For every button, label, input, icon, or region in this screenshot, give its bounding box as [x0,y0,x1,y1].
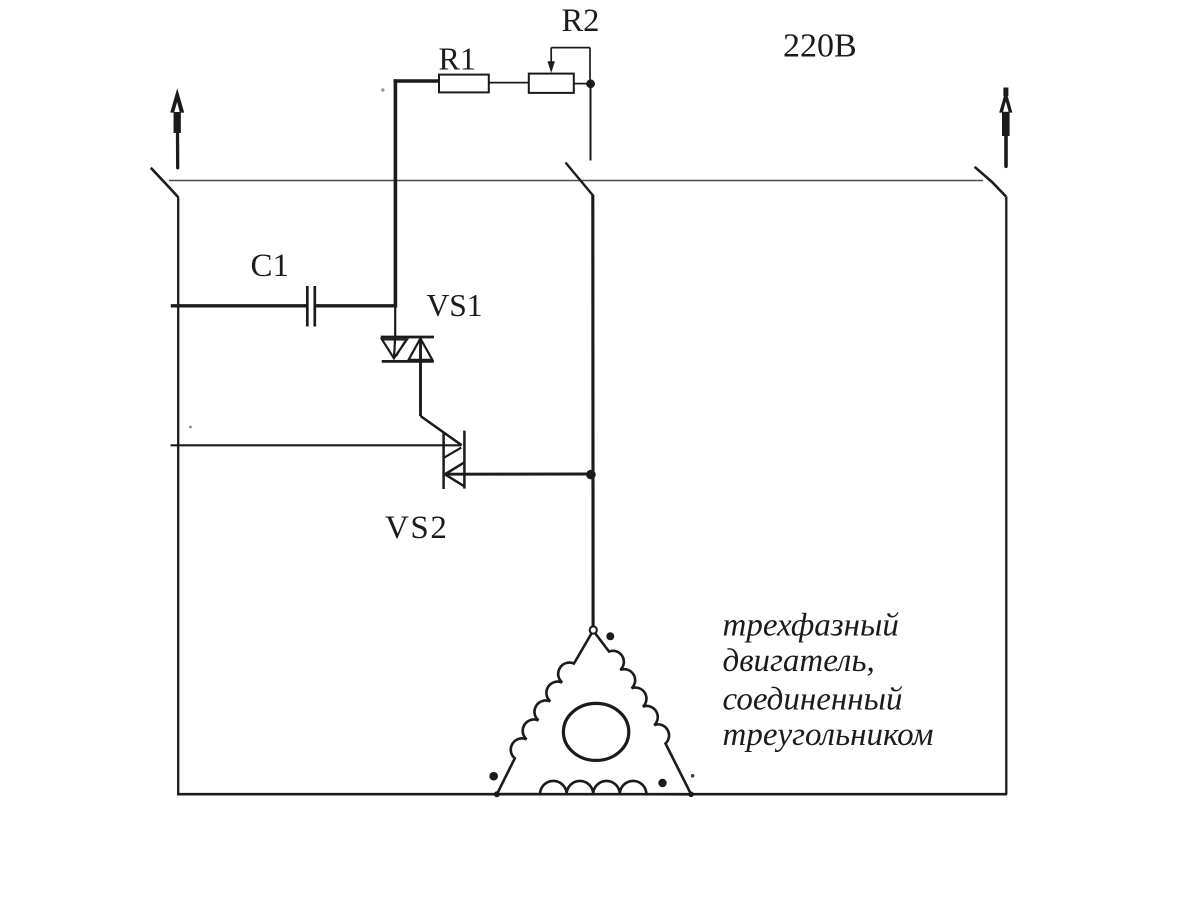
svg-text:трехфазный: трехфазный [723,608,900,644]
svg-text:220В: 220В [783,28,857,65]
svg-text:VS1: VS1 [427,288,483,323]
wire: VS2 anode to middle line [445,473,592,476]
resistor R2 (rheostat body) [529,74,574,93]
terminal arrow right (supply N) [999,88,1012,167]
wire: VS1 output down [419,338,422,416]
motor winding right side (apex to bottom-right) [595,633,692,795]
capacitor C1 plates [307,286,315,327]
rheostat R2 wiper arrow [548,48,591,80]
svg-text:VS2: VS2 [385,510,449,546]
svg-text:соединенный: соединенный [723,682,903,718]
wire: left rail to C1 [171,304,306,307]
wire: right rail [1005,197,1007,795]
wire: thick vertical from R1 corner down to C1 junction [394,79,398,307]
svg-text:R1: R1 [439,41,476,77]
wire: gate line from left rail to VS2 [171,444,462,446]
svg-text:треугольником: треугольником [723,717,934,753]
node dot bottom-right vertex [688,792,694,798]
switch blade middle [566,163,594,196]
wire: C1 junction down to VS1 [394,306,395,358]
winding dot bottom-left [489,772,498,781]
triac VS1 [381,337,434,361]
speck near gate line [189,426,192,429]
node dot at VS2/middle line junction [586,470,596,480]
svg-text:C1: C1 [251,248,290,284]
wire: C1 to thick vertical [316,304,397,307]
motor apex terminal ring [590,626,597,633]
switch blade left [151,168,179,198]
svg-text:R2: R2 [562,3,600,39]
wire: thick horizontal to R1 left [394,79,440,83]
wire: R2 right to node [574,83,588,85]
wire: diagonal from VS1 to VS2 [421,416,462,445]
motor rotor circle [563,703,628,760]
terminal arrow left (supply L) [170,88,184,168]
winding dot bottom-right [658,779,666,787]
speck near bottom-right vertex [691,774,695,778]
triac VS2 [444,431,465,489]
motor winding bottom side [497,781,691,794]
svg-text:двигатель,: двигатель, [723,643,875,679]
wire: left rail [177,198,179,795]
wire: middle vertical line down to motor apex [591,195,594,627]
wire: R1 to R2 [489,82,529,84]
speck near R1 corner [381,88,384,91]
node dot at R2 output [586,79,595,88]
wire: thin horizontal link line between switch poles [169,180,983,182]
wire: bottom line [177,793,1007,796]
motor winding left side (apex to bottom-left) [497,633,592,795]
resistor R1 [439,75,489,93]
switch blade right [975,167,1006,197]
node dot bottom-left vertex [494,791,500,797]
label: motor description text [723,608,934,754]
winding dot near apex [606,632,614,640]
wire: node down to middle switch [590,88,592,161]
